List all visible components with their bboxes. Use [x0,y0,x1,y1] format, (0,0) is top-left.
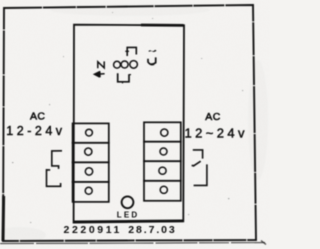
terminal block R1 [144,122,181,141]
svg-text:LED: LED [117,210,140,219]
right terminal column [144,122,181,201]
jumper U symbol [118,73,131,83]
outer border frame [3,5,256,241]
terminal block R4 [144,181,181,201]
screw circles right [159,129,168,193]
letter N marking [98,61,104,68]
screw circles left [85,129,93,194]
scanned page bottom edge line [0,241,266,245]
svg-text:12~24v: 12~24v [185,126,248,141]
device outline rectangle [74,25,184,223]
jumper link bracket left [47,151,63,187]
left terminal column [73,123,109,201]
relay outline symbol (top) [125,47,136,56]
terminal block L4 [73,182,109,202]
svg-text:2220911: 2220911 [64,224,123,236]
label 12-24v left [6,124,65,138]
svg-text:AC: AC [205,111,221,123]
svg-text:AC: AC [30,111,45,123]
svg-text:12-24v: 12-24v [6,124,65,138]
terminal block R3 [144,161,181,181]
scan specks [12,12,243,223]
label 12-24v right [185,126,248,141]
terminal block L3 [73,162,109,182]
LED indicator circle [122,196,134,208]
component circles (three) [114,61,138,69]
label AC right [205,111,221,123]
svg-text:28.7.03: 28.7.03 [128,224,176,236]
terminal block R2 [144,142,181,162]
part number and date [64,224,177,236]
LED label [117,210,140,219]
label AC left [30,111,45,123]
polarity arrow [94,71,104,77]
tilde marking (rotated 2~ right of relay) [148,50,157,65]
terminal block L2 [73,143,109,163]
terminal block L1 [73,123,109,142]
jumper link bracket right [192,150,207,186]
